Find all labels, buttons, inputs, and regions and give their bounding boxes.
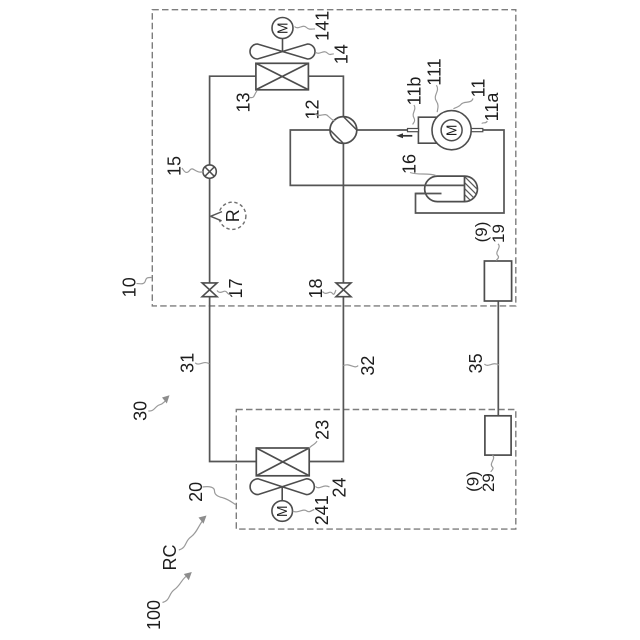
svg-text:14: 14 xyxy=(332,44,352,64)
label 32 xyxy=(343,356,377,376)
label 18 xyxy=(306,278,336,298)
svg-text:141: 141 xyxy=(312,11,332,41)
discharge direction arrow xyxy=(396,133,412,138)
svg-text:23: 23 xyxy=(312,420,332,440)
shutoff valve 18 (bowtie) xyxy=(336,283,351,297)
svg-text:R: R xyxy=(223,209,243,222)
compressor discharge port 11b xyxy=(408,129,419,132)
label 23 xyxy=(309,420,332,449)
heat exchanger 23 (box with X) xyxy=(256,448,309,476)
outdoor unit dashed box 10 xyxy=(152,10,516,306)
wire: suction loop from accumulator outlet to compressor port 11a xyxy=(416,130,505,213)
svg-text:35: 35 xyxy=(466,353,486,373)
wire: communication line 35 from box19 to box29 xyxy=(497,301,499,416)
label 19 xyxy=(489,224,508,261)
svg-text:111: 111 xyxy=(424,58,444,85)
label 141 xyxy=(295,11,333,41)
label 30 with arrow xyxy=(131,395,170,421)
fan motor 141 (M circle) xyxy=(272,18,293,39)
expansion valve 15 (circle with X) xyxy=(203,165,216,178)
svg-text:RC: RC xyxy=(160,545,180,571)
svg-text:11a: 11a xyxy=(482,92,502,122)
svg-text:M: M xyxy=(274,22,291,34)
compressor 11 body xyxy=(418,111,471,150)
fan 24 (propeller) xyxy=(250,479,314,495)
compressor motor M circle 111 xyxy=(441,120,462,141)
label 31 xyxy=(178,353,210,373)
label 11 xyxy=(454,79,489,109)
svg-text:16: 16 xyxy=(400,154,420,174)
four-way valve 12 xyxy=(330,117,357,144)
accumulator 16 (capsule with hatched end plate) xyxy=(416,172,493,208)
wire: accumulator outlet pipe inside capsule xyxy=(416,193,442,195)
svg-text:13: 13 xyxy=(234,92,254,112)
label 17 xyxy=(217,278,246,298)
heat exchanger 13 (box with X) xyxy=(256,63,309,90)
wire: pipe from HX13 right to four-way valve 12 top xyxy=(308,76,343,116)
label 15 xyxy=(165,156,204,176)
fan motor 241 (M circle) xyxy=(272,501,293,522)
label 13 xyxy=(234,91,257,113)
indoor unit dashed box 20 xyxy=(236,410,516,530)
label 11a xyxy=(482,92,502,124)
fan 14 (propeller) xyxy=(250,44,315,59)
svg-text:31: 31 xyxy=(178,353,198,373)
wire: fan 24 motor stem xyxy=(281,487,283,501)
svg-text:100: 100 xyxy=(144,600,164,630)
label 20 xyxy=(186,482,235,505)
wire: accumulator inlet pipe inside capsule xyxy=(425,184,465,186)
wire: pipe from valve12 right port to compressor discharge port 11b xyxy=(357,129,408,131)
controller box 29 xyxy=(485,416,511,455)
label 35 xyxy=(466,353,499,373)
label 241 xyxy=(293,495,332,525)
svg-text:11b: 11b xyxy=(405,77,425,106)
compressor suction port 11a xyxy=(471,129,483,132)
svg-text:29: 29 xyxy=(479,473,498,492)
refrigerant R balloon (dashed circle with tail) xyxy=(211,202,246,229)
wire: pipe from valve12 bottom through valve18 down to HX23 right (line 32) xyxy=(309,143,343,461)
wire: fan 14 motor stem xyxy=(282,39,284,52)
svg-text:32: 32 xyxy=(358,356,378,376)
svg-text:24: 24 xyxy=(330,477,350,497)
svg-text:M: M xyxy=(444,125,461,137)
svg-text:30: 30 xyxy=(131,401,151,421)
label RC with arrow xyxy=(160,516,207,571)
svg-text:19: 19 xyxy=(489,224,508,243)
label 11b xyxy=(405,77,425,125)
svg-text:241: 241 xyxy=(312,495,332,525)
label 29 xyxy=(479,455,498,492)
svg-text:17: 17 xyxy=(226,278,246,298)
label 24 xyxy=(316,477,350,497)
svg-text:18: 18 xyxy=(306,278,326,298)
label 12 xyxy=(302,99,335,121)
label 100 with arrow xyxy=(144,572,192,630)
controller box 19 xyxy=(484,261,511,301)
label 16 xyxy=(400,154,437,176)
wire: pipe from HX13 left to valve15, valve17, down to HX23 (line 31) xyxy=(210,76,257,461)
label 10 xyxy=(120,277,153,297)
svg-text:20: 20 xyxy=(186,482,206,502)
svg-text:12: 12 xyxy=(302,99,322,119)
label 14 xyxy=(315,44,351,64)
shutoff valve 17 (bowtie) xyxy=(202,283,217,297)
svg-text:15: 15 xyxy=(165,156,185,176)
svg-text:M: M xyxy=(274,505,291,517)
wire: pipe from valve12 left port looping to accumulator 16 inlet xyxy=(290,130,464,185)
label 111 xyxy=(424,58,444,112)
svg-text:10: 10 xyxy=(120,277,140,297)
